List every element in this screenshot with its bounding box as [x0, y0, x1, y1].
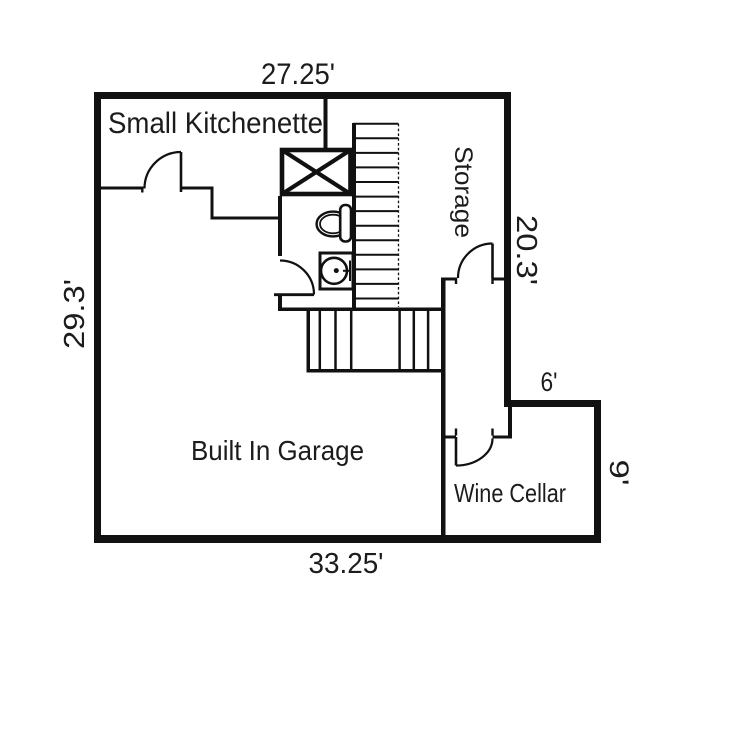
wall: landing south — [307, 369, 445, 373]
wall: right lower exterior — [594, 400, 601, 543]
wall: wine door west stub — [444, 436, 456, 439]
wall: landing north — [278, 308, 444, 312]
wall: kitchenette jog vertical — [211, 187, 214, 220]
stairs: upper vertical run treads — [353, 124, 399, 299]
label: Storage (rotated) — [449, 146, 477, 238]
svg-text:27.25': 27.25' — [261, 58, 335, 91]
wall: right upper exterior — [504, 92, 511, 407]
door: bathroom — [274, 261, 314, 295]
wall: top exterior — [94, 92, 511, 99]
label: 27.25' — [261, 58, 335, 91]
svg-text:6': 6' — [541, 367, 558, 397]
label: 6' — [541, 367, 558, 397]
wall: wine cellar north-west inner vertical — [508, 401, 512, 439]
label: 33.25' — [309, 548, 384, 580]
wall: bath west upper — [278, 196, 282, 256]
door jamb: wine east — [491, 429, 493, 436]
wall: above shaft box — [324, 99, 328, 149]
wall: east interior (storage/garage/wine) — [441, 278, 446, 544]
wall: left exterior — [94, 92, 101, 543]
stairs: lower run treads — [320, 311, 428, 369]
svg-text:9': 9' — [604, 460, 634, 486]
wall: storage door south segment west — [446, 278, 457, 281]
svg-text:29.3': 29.3' — [59, 279, 91, 349]
door jamb: wine west — [455, 429, 457, 436]
stairs: upper run east edge — [398, 124, 400, 307]
toilet — [317, 205, 351, 242]
wall: bottom exterior — [94, 535, 601, 543]
wall: step horizontal exterior — [504, 400, 601, 407]
label: Wine Cellar — [454, 478, 566, 508]
label: 20.3' (rotated) — [510, 215, 542, 285]
wall: kitchenette south A — [101, 187, 144, 190]
wall: kitchenette south C — [211, 217, 283, 220]
door jamb: storage east — [491, 278, 493, 285]
wall: wine door east segment — [493, 436, 513, 439]
svg-text:Built In Garage: Built In Garage — [191, 435, 364, 466]
door: storage — [458, 244, 493, 279]
shaft box with X — [282, 150, 351, 194]
wall: stair west — [352, 123, 356, 309]
sink — [320, 253, 353, 289]
door: kitchenette — [145, 152, 182, 192]
label: Small Kitchenette — [108, 107, 323, 140]
door jamb: kitchenette west — [141, 187, 143, 193]
label: Built In Garage — [191, 435, 364, 466]
wall: bath west lower stub — [278, 295, 282, 310]
door: wine cellar — [456, 437, 493, 466]
svg-text:Small Kitchenette: Small Kitchenette — [108, 107, 323, 140]
wall: landing west — [307, 308, 311, 373]
svg-text:Storage: Storage — [449, 146, 477, 238]
svg-text:Wine Cellar: Wine Cellar — [454, 478, 566, 508]
svg-text:33.25': 33.25' — [309, 548, 384, 580]
door jamb: storage west — [455, 278, 457, 285]
wall: storage door south segment east — [493, 278, 505, 281]
wall: kitchenette south B — [181, 187, 214, 190]
label: 29.3' (rotated) — [59, 279, 91, 349]
svg-text:20.3': 20.3' — [510, 215, 542, 285]
label: 9' (rotated) — [604, 460, 634, 486]
